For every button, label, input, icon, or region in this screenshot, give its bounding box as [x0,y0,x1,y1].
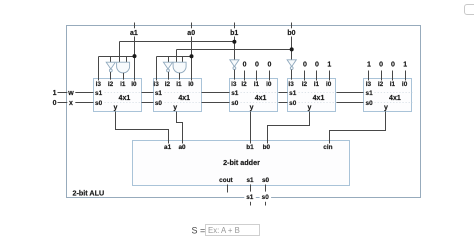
button fragment top-right [465,5,474,15]
wire a0 branch line to i3/NOT/AND of mux U2 [157,56,192,58]
2-bit ALU outer enclosure box [67,26,421,198]
node b1 junction [232,40,236,44]
svg-text:b1: b1 [230,30,238,37]
svg-text:i3: i3 [96,81,102,88]
svg-text:a1: a1 [130,30,138,37]
svg-text:0: 0 [315,62,319,69]
AND gate G4 (a0 AND b0) feeding mux U2 i1 [173,62,186,79]
wire a0 to inverter G3 input [168,57,170,63]
wire adder s0 output through ALU port [265,185,267,206]
svg-text:i1: i1 [120,81,126,88]
wire b1 drop into AND G2 [119,42,121,63]
svg-text:4x1: 4x1 [119,95,131,102]
wire constant 0 stub into mux U3 [269,71,271,81]
svg-text:S =: S = [192,225,206,235]
wire a1 to mux U1 i3 [98,57,100,81]
svg-text:y: y [308,105,312,112]
svg-text:0: 0 [303,62,307,69]
svg-text:b0: b0 [263,144,271,151]
wire constant 1 stub into mux U4 [329,71,331,81]
wire s0 select (faint through mux U4) [299,102,337,104]
wire constant 0 stub into mux U5 [392,71,394,81]
svg-text:i3: i3 [153,81,159,88]
wire constant 0 stub into mux U5 [381,71,383,81]
mux U5 4x1 box [364,79,412,112]
svg-text:4x1: 4x1 [255,95,267,102]
wire x/s0 from port 0 to mux U1 [58,102,94,104]
wire mux U4 y output to adder b0 [268,112,310,144]
svg-text:2-bit ALU: 2-bit ALU [73,188,105,197]
svg-text:i0: i0 [131,81,137,88]
node a0 junction [190,54,194,58]
svg-text:4x1: 4x1 [178,95,190,102]
svg-text:i3: i3 [366,81,372,88]
svg-text:i2: i2 [302,81,308,88]
svg-text:b1: b1 [246,144,254,151]
wire a1 to inverter G1 input [110,57,112,63]
svg-text:0: 0 [255,62,259,69]
wire s0 chain mux U1 to U2 [142,102,154,104]
wire mux U2 y output to adder a0 [177,112,183,144]
2-bit adder U6 box [133,141,350,186]
wire input b1 vertical to inverter G5 [234,23,236,60]
wire s0 select (faint through mux U5) [375,102,413,104]
wire input a1 vertical into mux U1 i0 [134,23,136,81]
svg-text:0: 0 [53,100,57,107]
svg-text:a0: a0 [178,144,186,151]
wire a0 to mux U2 i3 [156,57,158,81]
svg-text:i2: i2 [378,81,384,88]
svg-text:s0: s0 [366,100,374,107]
wire constant 1 stub into mux U5 [368,71,370,81]
wire mux U1 y output to adder a1 [116,112,169,144]
svg-text:i1: i1 [176,81,182,88]
node b0 junction [290,47,294,51]
svg-text:y: y [384,105,388,112]
svg-text:i3: i3 [288,81,294,88]
adder U6 output pin labels (cout s1 s0) [219,177,269,184]
svg-text:s1: s1 [155,90,163,97]
wire s0 select (faint through mux U2) [165,102,202,104]
wire s1 select (faint through mux U5) [375,92,413,94]
wire b0 distribution to AND G4 left input [177,49,292,51]
wire s1 chain mux U4 to U5 [337,92,364,94]
inverter G1 (NOT a1) feeding mux U1 i2 [106,62,115,79]
svg-text:s1: s1 [246,177,254,184]
wire s0 chain mux U3 to U4 [279,102,288,104]
svg-text:1: 1 [403,62,407,69]
svg-text:i0: i0 [188,81,194,88]
wire s1 chain mux U3 to U4 [279,92,288,94]
svg-text:i2: i2 [241,81,247,88]
wire s1 select (faint through mux U2) [165,92,202,94]
node a1 junction [133,54,137,58]
mux U1 4x1 box [94,79,142,112]
wire s0 select (faint through mux U1) [105,102,142,104]
inverter G3 (NOT a0) feeding mux U2 i2 [163,62,172,79]
svg-text:Ex: A + B: Ex: A + B [208,226,240,235]
mux U3 4x1 box [230,79,278,112]
svg-text:2-bit adder: 2-bit adder [223,158,260,167]
svg-text:i0: i0 [402,81,408,88]
svg-text:s1: s1 [231,90,239,97]
AND gate G2 (a1 AND b1) feeding mux U1 i1 [117,62,130,79]
wire constant 0 stub into mux U3 [244,71,246,81]
svg-text:1: 1 [327,62,331,69]
mux U4 4x1 box [288,79,336,112]
constant 0/1 value labels on mux inputs [243,62,408,69]
inverter G6 (NOT b0) feeding mux U4 i3 [287,60,296,80]
svg-text:x: x [69,100,73,107]
svg-text:y: y [113,105,117,112]
svg-text:cout: cout [219,177,233,184]
svg-text:s0: s0 [262,177,270,184]
svg-text:s1: s1 [246,194,254,201]
wire s1 select (faint through mux U4) [299,92,337,94]
wire mux U3 y output to adder b1 [250,112,252,144]
wire adder cout dangling stub [227,185,229,193]
wire s0 chain mux U4 to U5 [337,102,364,104]
inverter G5 (NOT b1) feeding mux U3 i3 [230,60,239,80]
wire s1 chain mux U1 to U2 [142,92,154,94]
S = expression input control [192,225,260,236]
label background plates (white) [67,28,297,202]
svg-text:1: 1 [367,62,371,69]
mux U3 pin and name labels (i3 i2 i1 i0, s1, s0, 4x1, y) [231,81,272,112]
svg-text:0: 0 [379,62,383,69]
svg-text:y: y [250,105,254,112]
svg-text:b0: b0 [287,30,295,37]
svg-text:s0: s0 [95,100,103,107]
wire s0 select (faint through mux U3) [241,102,279,104]
wire s0 chain mux U2 to U3 [202,102,230,104]
svg-text:i0: i0 [326,81,332,88]
svg-text:y: y [173,105,177,112]
svg-text:s1: s1 [366,90,374,97]
mux U2 pin and name labels (i3 i2 i1 i0, s1, s0, 4x1, y) [153,81,194,112]
svg-text:i1: i1 [314,81,320,88]
wire a1 branch line to i3/NOT/AND of mux U1 [99,56,135,58]
svg-text:s0: s0 [262,194,270,201]
wire adder s1 output through ALU port [250,185,252,206]
svg-text:s0: s0 [155,100,163,107]
wire input a0 vertical into mux U2 i0 [191,23,193,81]
svg-text:4x1: 4x1 [389,95,401,102]
mux U5 pin and name labels (i3 i2 i1 i0, s1, s0, 4x1, y) [366,81,408,112]
svg-text:i2: i2 [165,81,171,88]
svg-text:a0: a0 [187,30,195,37]
wire constant 0 stub into mux U4 [316,71,318,81]
svg-text:i3: i3 [231,81,237,88]
wire s1 select (faint through mux U3) [241,92,279,94]
svg-text:i1: i1 [254,81,260,88]
wire s1 select (faint through mux U1) [105,92,142,94]
wire w/s1 from port 1 to mux U1 [58,92,94,94]
svg-text:s0: s0 [289,100,297,107]
wire a0 to AND G4 right input [182,57,184,63]
wire mux U5 y output to adder cin [330,112,386,144]
wire constant 1 stub into mux U5 [405,71,407,81]
wire constant 0 stub into mux U3 [256,71,258,81]
mux U1 pin and name labels (i3 i2 i1 i0, s1, s0, 4x1, y) [95,81,137,112]
svg-text:s1: s1 [289,90,297,97]
svg-text:i0: i0 [266,81,272,88]
svg-text:0: 0 [243,62,247,69]
svg-text:4x1: 4x1 [313,95,325,102]
mux U2 4x1 box [154,79,202,112]
svg-text:1: 1 [53,90,57,97]
svg-text:s0: s0 [231,100,239,107]
svg-text:w: w [67,90,74,97]
svg-text:0: 0 [391,62,395,69]
svg-text:i1: i1 [390,81,396,88]
svg-text:i2: i2 [108,81,114,88]
wire input b0 vertical to inverter G6 [291,23,293,60]
svg-text:s1: s1 [95,90,103,97]
svg-text:cin: cin [323,144,332,151]
svg-text:a1: a1 [164,144,172,151]
wire a1 to AND G2 right input [126,57,128,63]
wire b0 drop into AND G4 [176,50,178,63]
adder U6 input pin labels (a1 a0 b1 b0 cin) [164,144,333,151]
wire b1 distribution to AND G2 left input [120,41,235,43]
svg-text:0: 0 [267,62,271,69]
mux U4 pin and name labels (i3 i2 i1 i0, s1, s0, 4x1, y) [288,81,331,112]
wire constant 0 stub into mux U4 [304,71,306,81]
wire s1 chain mux U2 to U3 [202,92,230,94]
